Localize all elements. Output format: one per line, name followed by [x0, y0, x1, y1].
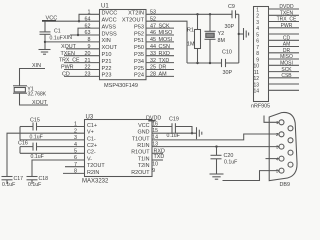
ground sideways right of crystal	[243, 28, 245, 40]
wire TRX_CE pin21 stub	[64, 62, 100, 64]
svg-text:PWR: PWR	[61, 65, 74, 71]
U1 left internal pin names	[102, 11, 118, 79]
wire XT2OUT pin52	[146, 21, 187, 63]
svg-text:P23: P23	[102, 73, 112, 79]
crystal Y2 leads	[209, 14, 211, 31]
capacitor C17 plates	[2, 176, 13, 178]
svg-text:GND: GND	[138, 130, 150, 136]
svg-text:0.1uF: 0.1uF	[2, 182, 15, 187]
node junction C1/XIN	[44, 41, 46, 43]
svg-text:0.1uF: 0.1uF	[50, 35, 63, 41]
wire nRF905 pin13	[269, 83, 300, 85]
svg-text:32.768K: 32.768K	[28, 92, 47, 98]
wire C17 bottom stem	[6, 180, 8, 184]
wire nRF905 pin10 MOSI	[269, 64, 300, 66]
svg-text:C17: C17	[14, 176, 24, 182]
svg-text:30P: 30P	[223, 70, 233, 76]
svg-text:11: 11	[254, 70, 259, 76]
U1 right net labels	[159, 23, 173, 77]
wire DB9 pin4 stub	[266, 158, 280, 160]
wire U1 right MOSI stub	[146, 41, 174, 43]
wire C16 link pin4 to pin5	[19, 147, 21, 154]
svg-text:30P: 30P	[225, 24, 235, 30]
svg-text:C1: C1	[54, 28, 61, 34]
svg-text:DB9: DB9	[280, 182, 291, 187]
svg-text:8: 8	[256, 51, 259, 57]
capacitor C20 plates	[211, 154, 222, 156]
svg-text:TRX_CE: TRX_CE	[277, 17, 297, 23]
wire AVCC pin64 to VCC	[42, 20, 100, 22]
svg-text:C2+: C2+	[87, 143, 97, 149]
wire XIN net to Y1	[20, 69, 46, 86]
svg-text:8M: 8M	[218, 38, 226, 44]
U3 left pin numbers 1-8	[74, 122, 77, 175]
wire XOUT pin9 stub	[66, 48, 100, 50]
wire nRF905 pin9 MISO	[269, 58, 300, 60]
svg-text:XT2OUT: XT2OUT	[122, 18, 145, 24]
svg-text:4: 4	[256, 26, 259, 32]
svg-text:P50: P50	[134, 45, 144, 51]
capacitor C18 plates	[27, 176, 38, 178]
svg-text:T2OUT: T2OUT	[87, 163, 105, 169]
svg-text:MAX3232: MAX3232	[82, 179, 109, 185]
wire CD pin23 stub	[64, 75, 100, 77]
connector P1 DB9 body	[269, 112, 297, 180]
svg-text:DVSS: DVSS	[102, 31, 118, 37]
wire U3 pin4 C2+	[37, 146, 85, 148]
svg-text:C1-: C1-	[87, 136, 96, 142]
svg-text:7: 7	[256, 45, 259, 51]
wire AVSS pin62 stub	[78, 28, 100, 35]
svg-text:VCC: VCC	[138, 123, 149, 129]
wire XT2 right rail	[238, 14, 240, 63]
svg-text:0.1uF: 0.1uF	[31, 154, 44, 160]
svg-text:MISO: MISO	[280, 54, 293, 60]
wire U1 right CSN stub	[146, 48, 174, 50]
wire nRF905 pin3 TRX_CE	[269, 21, 300, 23]
svg-text:14: 14	[253, 89, 259, 95]
svg-text:XIN: XIN	[102, 38, 111, 44]
svg-text:V-: V-	[87, 156, 92, 162]
svg-text:C1+: C1+	[87, 123, 97, 129]
wire U3 pin5 C2-	[20, 152, 85, 154]
svg-text:XT2IN: XT2IN	[128, 11, 144, 17]
wire U3 pin13 R1IN to DB9 pin3	[152, 146, 279, 148]
svg-text:AVCC: AVCC	[102, 18, 117, 24]
wire U1 right MISO stub	[146, 34, 174, 36]
wire C1 down to ground	[44, 34, 46, 49]
crystal Y2 plates	[205, 30, 216, 32]
svg-text:CSB: CSB	[281, 73, 292, 79]
svg-text:10: 10	[152, 162, 158, 168]
resistor R1 leads	[197, 14, 199, 29]
svg-text:C10: C10	[222, 50, 232, 56]
wire U3 pin7 stub	[65, 166, 85, 168]
wire U3 pin6 V-	[32, 160, 85, 177]
wire U3 pin8 stub	[63, 172, 85, 174]
svg-text:P51: P51	[134, 38, 144, 44]
node junction Y2 top	[209, 13, 211, 15]
svg-text:4: 4	[276, 156, 279, 162]
wire nRF905 pin14	[269, 89, 300, 91]
svg-text:T1IN: T1IN	[138, 156, 150, 162]
svg-text:C9: C9	[228, 4, 235, 10]
svg-text:9: 9	[152, 168, 155, 174]
svg-text:MOSI: MOSI	[280, 61, 293, 67]
svg-text:R2OUT: R2OUT	[131, 170, 150, 176]
wire XT2 bottom rail	[187, 62, 222, 64]
svg-text:AM: AM	[283, 42, 291, 48]
connector J1 nRF905 body	[254, 7, 269, 102]
wire C20 bottom stem	[216, 159, 218, 174]
wire C10 right side to rail	[226, 62, 239, 64]
svg-text:C19: C19	[169, 117, 179, 123]
wire C9 right plate to rail	[236, 13, 239, 15]
svg-text:P24: P24	[134, 73, 144, 79]
svg-text:CD: CD	[62, 72, 70, 78]
svg-text:5: 5	[276, 168, 279, 174]
wire Y1 to XOUT net	[20, 93, 49, 105]
power VCC bar	[42, 20, 56, 22]
svg-text:U1: U1	[101, 4, 109, 10]
svg-text:R1IN: R1IN	[137, 143, 149, 149]
svg-text:0.1uF: 0.1uF	[224, 159, 237, 165]
wire XIN pin8 to C1 ground node	[45, 41, 100, 43]
svg-text:TXEN: TXEN	[61, 51, 75, 57]
svg-text:R2IN: R2IN	[87, 170, 99, 176]
svg-text:PWR: PWR	[281, 23, 293, 29]
ground sideways at U3 pin15	[196, 127, 198, 139]
node junction C20 tap	[215, 145, 217, 147]
svg-text:0.1uF: 0.1uF	[167, 133, 180, 139]
svg-text:3: 3	[256, 20, 259, 26]
svg-text:9: 9	[256, 57, 259, 63]
connector DB9 pin numbers 1-5	[276, 120, 279, 174]
U1 right pin numbers	[150, 10, 156, 78]
wire nRF905 pin6 CD	[269, 39, 300, 41]
svg-text:XIN: XIN	[63, 35, 72, 41]
svg-text:TXD: TXD	[154, 154, 165, 160]
svg-text:1: 1	[276, 120, 279, 126]
svg-text:DVDD: DVDD	[279, 4, 294, 10]
svg-text:P35: P35	[134, 52, 144, 58]
U3 right internal pin names	[131, 123, 150, 176]
svg-text:5: 5	[256, 32, 259, 38]
wire U3 pin15 GND	[152, 132, 196, 134]
wire U1 right AM stub	[146, 75, 174, 77]
wire nRF905 pin12 CSB	[269, 77, 300, 79]
wire C18 bottom stem	[31, 180, 33, 184]
svg-text:1M: 1M	[187, 42, 195, 48]
svg-text:DVCC: DVCC	[102, 11, 118, 17]
power DVDD flag	[148, 120, 155, 121]
op-amp U1 MSP430F149 body	[100, 10, 147, 80]
svg-text:R1OUT: R1OUT	[131, 150, 150, 156]
wire DB9 pin5 ground run	[223, 171, 280, 181]
svg-text:VCC: VCC	[46, 16, 58, 22]
capacitor C10 plates	[221, 59, 223, 67]
node junction ground tap	[238, 33, 240, 35]
svg-text:XIN: XIN	[32, 63, 41, 69]
svg-text:T1OUT: T1OUT	[132, 136, 150, 142]
connector DB9 pin circles left column	[279, 120, 284, 125]
svg-text:TRX_CE: TRX_CE	[59, 58, 80, 64]
svg-text:P25: P25	[134, 66, 144, 72]
svg-text:3: 3	[276, 144, 279, 150]
svg-text:C18: C18	[39, 176, 49, 182]
capacitor C9 plates	[231, 10, 233, 18]
svg-text:DVDD: DVDD	[146, 115, 161, 121]
svg-text:2: 2	[276, 132, 279, 138]
wire U3 pin14 T1OUT to DB9 pin2	[152, 134, 279, 140]
wire VCC down to C1	[44, 21, 46, 32]
svg-text:0.1uF: 0.1uF	[28, 182, 41, 187]
svg-text:P22: P22	[102, 66, 112, 72]
wire DB9 pin1 stub	[264, 116, 279, 123]
svg-text:AVSS: AVSS	[102, 24, 117, 30]
wire U3 pin3 C1-	[20, 139, 85, 141]
op-amp U3 MAX3232 body	[85, 120, 153, 177]
wire U1 right SCK stub	[146, 27, 174, 29]
svg-text:P10: P10	[102, 52, 112, 58]
wire nRF905 pin4 PWR	[269, 27, 300, 29]
wire nRF905 pin8 DR	[269, 52, 300, 54]
svg-text:P34: P34	[134, 59, 144, 65]
svg-text:13: 13	[253, 82, 259, 88]
node junction R1 bottom	[196, 62, 198, 64]
capacitor C16 plates	[32, 143, 34, 151]
svg-text:V+: V+	[87, 130, 94, 136]
svg-text:XOUT: XOUT	[102, 45, 118, 51]
svg-text:R1: R1	[187, 28, 194, 34]
wire DVSS pin63 stub	[70, 34, 100, 36]
wire U1 right RXD stub	[146, 55, 174, 57]
wire XT2IN pin53 top rail	[146, 13, 232, 15]
crystal Y2 body	[206, 33, 214, 37]
connector nRF905 pin numbers 1-14	[253, 7, 259, 94]
svg-text:C15: C15	[30, 117, 40, 123]
svg-text:Y2: Y2	[218, 31, 225, 37]
ground below C20	[210, 173, 224, 175]
node junction pin1/pin64 tie	[78, 20, 80, 22]
svg-text:nRF905: nRF905	[251, 103, 270, 109]
U1 right internal pin names	[122, 11, 145, 79]
svg-text:C2-: C2-	[87, 150, 96, 156]
svg-text:C20: C20	[224, 153, 234, 159]
crystal Y1 body	[14, 88, 25, 92]
svg-text:DR: DR	[283, 48, 291, 54]
crystal Y1 plates	[13, 85, 27, 87]
wire nRF905 pin1 DVDD	[269, 8, 300, 10]
wire U3 pin11 T1IN stub	[152, 159, 163, 161]
svg-text:P53: P53	[134, 24, 144, 30]
wire U1 right TXD stub	[146, 62, 174, 64]
svg-text:T2IN: T2IN	[138, 163, 150, 169]
wire nRF905 pin2 TXEN	[269, 14, 300, 16]
ground below C1	[39, 49, 51, 51]
wire TXEN pin20 stub	[64, 55, 100, 57]
svg-text:6: 6	[256, 39, 259, 45]
wire U3 pin12 R1OUT stub	[152, 152, 163, 154]
capacitor C15 plates	[32, 123, 34, 131]
wire U3 pin2 V+	[7, 133, 85, 176]
capacitor C19 plates	[171, 123, 173, 133]
wire ground tap stub	[239, 33, 244, 35]
wire PWR pin22 stub	[64, 69, 100, 71]
U1 left pin numbers	[85, 10, 91, 78]
svg-text:U3: U3	[86, 115, 94, 121]
svg-text:10: 10	[253, 64, 259, 70]
U3 left internal pin names	[87, 123, 105, 176]
wire C19 to ground net	[175, 127, 192, 134]
svg-text:CD: CD	[283, 36, 291, 42]
wire C20 top stem	[216, 147, 218, 156]
svg-text:12: 12	[253, 76, 259, 82]
wire C15 link pin1 to pin3	[19, 127, 21, 140]
node junction Y2 bottom	[209, 62, 211, 64]
svg-text:P21: P21	[102, 59, 112, 65]
capacitor C1 plates	[40, 31, 51, 33]
wire nRF905 pin11 SCK	[269, 71, 300, 73]
connector DB9 pin circles right column	[288, 126, 293, 131]
wire U1 right DR stub	[146, 69, 174, 71]
wire nRF905 pin5	[269, 33, 300, 35]
node junction C19/GND	[191, 132, 193, 134]
resistor R1 body	[195, 30, 201, 49]
svg-text:1: 1	[256, 7, 259, 13]
wire nRF905 pin7 AM	[269, 46, 300, 48]
wire U3 pin1 C1+	[37, 126, 85, 128]
svg-text:C16: C16	[18, 141, 28, 147]
node junction pin62/pin63 tie	[77, 34, 79, 36]
svg-text:SCK: SCK	[281, 67, 292, 73]
svg-text:XOUT: XOUT	[32, 100, 48, 106]
svg-text:XOUT: XOUT	[61, 44, 77, 50]
svg-text:MSP430F149: MSP430F149	[104, 83, 138, 89]
wire DVCC pin1 stub	[79, 14, 100, 21]
node junction R1 top	[196, 13, 198, 15]
wire U3 pin16 VCC	[152, 126, 172, 128]
svg-text:P52: P52	[134, 31, 144, 37]
svg-text:2: 2	[256, 14, 259, 20]
U3 right pin numbers	[152, 121, 158, 174]
svg-text:TXEN: TXEN	[280, 11, 294, 17]
